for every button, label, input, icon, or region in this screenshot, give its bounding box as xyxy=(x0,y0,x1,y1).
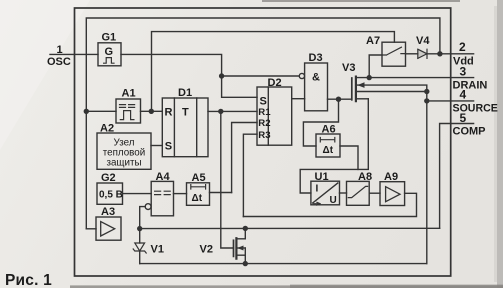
D1 flip-flop box xyxy=(162,98,208,157)
wire A3 input from Vdd rail xyxy=(86,228,96,230)
svg-text:R2: R2 xyxy=(258,118,270,129)
node A1 output junction xyxy=(149,109,153,113)
wire A1 output to D1.R xyxy=(141,110,163,112)
svg-text:A1: A1 xyxy=(122,88,136,100)
A6 bar symbol xyxy=(320,138,335,142)
A9 triangle xyxy=(386,187,400,202)
wire U1 to A8 xyxy=(340,192,347,194)
svg-text:R: R xyxy=(165,107,173,119)
node A3 output V1 junction xyxy=(138,227,142,231)
D3 input inverter bubble xyxy=(299,73,304,78)
svg-text:D3: D3 xyxy=(309,52,323,64)
A4 comparator box xyxy=(151,181,173,215)
wire A7 input from drain xyxy=(369,55,382,78)
G1 pulse symbol xyxy=(104,58,114,64)
svg-text:G2: G2 xyxy=(101,172,116,184)
A9 amplifier box xyxy=(380,182,405,206)
svg-text:R1: R1 xyxy=(258,107,271,118)
svg-text:G1: G1 xyxy=(102,32,117,44)
transistor V2 channel dashes xyxy=(235,238,237,258)
wire A4 bubble to V1 node xyxy=(140,207,146,229)
A4 symbol dashes xyxy=(155,191,171,194)
wire pin1 OSC to G1 xyxy=(50,53,98,55)
node body-source junction xyxy=(425,90,429,94)
A3 amplifier box xyxy=(96,217,121,240)
svg-text:V1: V1 xyxy=(151,244,164,256)
bottom scan smudge xyxy=(70,285,503,288)
A7 switch box xyxy=(382,42,406,66)
svg-text:I: I xyxy=(316,184,319,195)
wire G2 to A4 xyxy=(123,193,152,195)
node Vdd rail to A1 input xyxy=(84,109,88,113)
D2 latch box xyxy=(257,87,292,145)
diode V4 xyxy=(418,49,427,58)
wire A6 output to sense line xyxy=(340,146,358,169)
wire branch to D3 inverted input xyxy=(222,75,300,77)
svg-text:A2: A2 xyxy=(100,123,114,135)
node SOURCE pin junction xyxy=(425,99,429,103)
top scan smudge xyxy=(262,0,460,2)
wire COMP pin to feedback rail xyxy=(440,124,474,229)
U1 diagonal xyxy=(313,183,338,203)
svg-text:V2: V2 xyxy=(200,244,213,256)
transistor V2 gate bar xyxy=(233,240,235,256)
svg-text:U: U xyxy=(330,195,337,206)
A8 limiter box xyxy=(347,181,370,205)
svg-text:D1: D1 xyxy=(178,87,192,99)
A5 delay box xyxy=(187,183,210,206)
wire V2 drain xyxy=(237,228,245,238)
svg-text:OSC: OSC xyxy=(47,56,71,68)
svg-text:3: 3 xyxy=(460,65,467,79)
svg-text:Рис. 1: Рис. 1 xyxy=(5,272,52,288)
svg-text:A3: A3 xyxy=(101,206,115,218)
svg-text:A4: A4 xyxy=(156,171,171,183)
svg-text:4: 4 xyxy=(460,88,467,102)
wire A1 input xyxy=(86,110,116,112)
wire A9 output to D2.R3 net xyxy=(243,193,416,216)
wire D2.R3 to A9 output net xyxy=(243,134,257,216)
svg-text:T: T xyxy=(182,107,189,119)
svg-text:1: 1 xyxy=(57,44,63,56)
A1 threshold detector box xyxy=(116,99,141,123)
node D3 output junction xyxy=(337,97,341,101)
svg-text:защиты: защиты xyxy=(106,158,141,169)
wire SOURCE pin xyxy=(427,100,474,102)
wire top rail to A7 xyxy=(152,32,395,112)
svg-text:A7: A7 xyxy=(366,35,380,47)
page edge shadow right xyxy=(0,0,90,150)
wire V2 source xyxy=(237,255,245,263)
A6 delay box xyxy=(316,134,340,157)
A2 thermal protection box xyxy=(97,133,151,169)
svg-text:DRAIN: DRAIN xyxy=(453,80,488,92)
A4 inverted input bubble xyxy=(145,204,151,210)
wire D2 output to D3 input xyxy=(292,98,305,100)
V3 body arrowhead xyxy=(357,82,364,88)
wire bottom rail xyxy=(140,263,427,265)
svg-text:Δt: Δt xyxy=(192,193,203,204)
svg-text:&: & xyxy=(312,72,320,84)
wire A4 to A5 xyxy=(174,193,187,195)
wire A2 output to D1.S xyxy=(151,145,162,147)
wire A5 output to D2.R2 riser xyxy=(210,192,232,194)
A7 switch symbol xyxy=(382,47,406,55)
transistor V3 channel dashes xyxy=(355,77,357,102)
A1 symbol dashes xyxy=(120,105,135,108)
node D1 output junction xyxy=(219,109,223,113)
svg-text:V3: V3 xyxy=(342,62,355,74)
wire D1 output to D2.R1 xyxy=(208,110,257,112)
wire V4 to Vdd pin xyxy=(427,53,474,55)
node G1-D3 junction xyxy=(220,74,224,78)
U1 I/U converter box xyxy=(311,181,340,205)
A1 symbol pulse xyxy=(120,111,134,120)
node Vdd junction xyxy=(438,52,442,56)
svg-text:5: 5 xyxy=(460,111,467,125)
wire A5 to D2.R2 xyxy=(232,123,257,193)
node V2 drain junction xyxy=(243,226,247,230)
wire V3 drain to DRAIN pin xyxy=(357,77,474,79)
wire Vdd top rail xyxy=(86,18,440,229)
svg-text:A5: A5 xyxy=(192,172,206,184)
wire V3 body arrow to source vertical xyxy=(357,85,427,264)
svg-text:2: 2 xyxy=(459,40,466,54)
svg-text:D2: D2 xyxy=(268,77,282,89)
transistor V3 gate bar xyxy=(351,78,353,100)
wire V3 stub3 to source vertical xyxy=(357,91,427,93)
G1 oscillator box xyxy=(98,43,121,66)
svg-text:A6: A6 xyxy=(322,124,336,136)
svg-text:V4: V4 xyxy=(416,35,430,47)
wire G1 output to D3/D2.S xyxy=(121,54,257,97)
svg-text:S: S xyxy=(165,141,172,153)
D3 AND gate box xyxy=(305,63,328,111)
U1 arrow xyxy=(314,202,321,205)
V2 body arrowhead xyxy=(237,246,243,251)
svg-text:A9: A9 xyxy=(384,171,398,183)
wire V3 sense source to U1 input xyxy=(300,99,368,193)
A5 bar symbol xyxy=(191,185,206,189)
A3 triangle xyxy=(101,222,115,236)
IC outer border xyxy=(75,8,451,276)
A8 symbol xyxy=(348,186,367,197)
svg-text:R3: R3 xyxy=(258,130,270,141)
node V3 drain A7 tap xyxy=(367,76,371,80)
svg-text:COMP: COMP xyxy=(453,126,486,138)
svg-text:0,5 В: 0,5 В xyxy=(99,190,123,201)
wire V2 body arrow xyxy=(237,247,245,249)
svg-text:S: S xyxy=(260,96,267,108)
wire A8 to A9 xyxy=(369,192,380,194)
G2 reference box xyxy=(97,183,123,204)
wire D3 output to A6 input xyxy=(303,99,338,146)
svg-text:Δt: Δt xyxy=(323,145,334,156)
svg-text:A8: A8 xyxy=(358,171,372,183)
wire A7 to V4 xyxy=(406,53,418,55)
svg-text:G: G xyxy=(105,46,114,58)
zener diode V1 xyxy=(139,229,141,243)
wire feedback rail xyxy=(140,227,440,229)
wire D1 output to V2 gate xyxy=(221,111,234,248)
node V2 source on bottom rail xyxy=(243,262,247,266)
wire V3 source stub xyxy=(357,98,369,100)
wire D3 output to V3 gate xyxy=(328,98,352,100)
svg-text:U1: U1 xyxy=(315,171,329,183)
